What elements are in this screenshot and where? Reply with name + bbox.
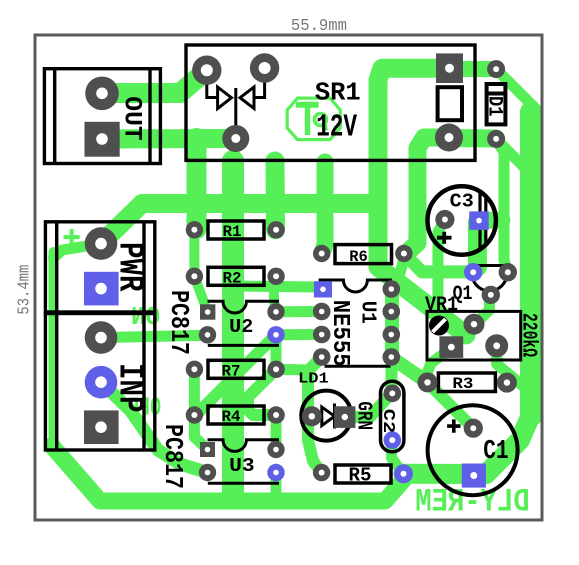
svg-text:U3: U3 — [229, 455, 255, 477]
wire Q1 emitter to VR1 top pad — [474, 295, 490, 326]
svg-text:PC817: PC817 — [164, 290, 194, 355]
svg-text:R7: R7 — [222, 363, 241, 381]
pad U2 pin4 — [267, 303, 284, 320]
pad U1 pin5 — [313, 348, 331, 366]
pad VR1 wiper square — [439, 336, 463, 358]
pad R7 left — [186, 361, 203, 378]
pad U1 pin3 — [383, 326, 401, 344]
svg-text:R1: R1 — [223, 223, 242, 241]
svg-text:U1: U1 — [356, 301, 379, 324]
wire D1 bottom down to Q1 collector — [496, 140, 508, 272]
svg-text:C1: C1 — [483, 437, 508, 467]
wire OUT round pad to relay pin A — [102, 70, 207, 93]
svg-text:C2: C2 — [378, 409, 397, 433]
wire U2 bottom right to U1 pin3 — [276, 329, 322, 340]
svg-text:VR1: VR1 — [425, 294, 458, 317]
resistor R6 body — [335, 245, 392, 264]
pad R3 left — [418, 372, 438, 392]
optocoupler U3 outline — [208, 440, 280, 484]
connector INP body — [45, 314, 154, 451]
pad Q1 emitter — [482, 286, 500, 304]
svg-text:INP: INP — [110, 363, 150, 413]
wire C3 minus down to Q1 base — [468, 222, 487, 267]
pad R1 left — [186, 221, 203, 238]
svg-text:PC817: PC817 — [158, 424, 188, 489]
svg-text:LD1: LD1 — [298, 370, 329, 387]
svg-text:SR1: SR1 — [315, 78, 361, 108]
LED LD1 outline circle — [301, 391, 351, 441]
pad VR1 top — [464, 314, 485, 335]
pad R3 right — [497, 373, 517, 393]
pad U3 pin3 blue — [267, 464, 284, 481]
transistor Q1 outline — [472, 266, 507, 291]
wire D1 top diagonal to right bus — [496, 69, 536, 109]
pad INP-1 round — [85, 321, 118, 354]
pad C1 minus blue square — [462, 464, 486, 488]
wire U2 pin3 to R4 left diagonal — [194, 335, 276, 417]
pad PWR-plus round — [85, 227, 118, 260]
wire R3 left to C1 plus — [427, 382, 473, 428]
svg-text:R5: R5 — [349, 465, 372, 487]
wire VR1 wiper to R3 left — [428, 350, 450, 382]
pad relay coil round — [435, 124, 463, 152]
pad C3 plus — [435, 210, 454, 229]
pad U1 pin2 — [383, 303, 401, 321]
pad C2 bottom blue — [384, 431, 402, 449]
wire branch to U2 top right pad — [274, 288, 276, 312]
pad U1 pin7 — [313, 303, 331, 321]
pad VR1 bottom right — [485, 334, 508, 357]
capacitor C2 outline — [381, 381, 404, 452]
wire fuse bottom to D1 bottom — [449, 129, 496, 148]
board outline frame — [35, 35, 542, 520]
fuse body — [438, 87, 462, 120]
wire INP blue pad diagonal to U3 bottom left — [101, 382, 208, 472]
pad INP-3 square — [84, 410, 119, 444]
wire R6 right to Q1 base pad — [404, 254, 472, 272]
LED LD1 triangle and bar — [322, 404, 335, 429]
pad relay common — [222, 125, 249, 152]
pad R7 right — [267, 361, 284, 378]
svg-text:U2: U2 — [229, 316, 253, 338]
wire U2 top right to U1 pin2 — [276, 306, 322, 317]
pad R1 right — [267, 221, 284, 238]
capacitor C1 plus sign — [447, 419, 460, 432]
wire U1 pin4 to LD1 anode to R5 left — [308, 357, 322, 473]
connector OUT body — [44, 69, 160, 164]
wire right vertical bus — [520, 112, 542, 416]
pad OUT-2 square — [85, 122, 120, 157]
wire C3 plus down to VR1 screw — [438, 220, 445, 324]
potentiometer VR1 screw — [429, 316, 449, 336]
wire D1 bottom diagonal to right bus — [496, 139, 523, 166]
pad R2 left — [186, 268, 203, 285]
svg-text:GRN: GRN — [352, 401, 375, 430]
pad Q1 collector — [499, 263, 517, 281]
wire long vertical bus behind R1 R2 U2 R7 R4 U3 — [222, 161, 244, 496]
timer U1 outline — [319, 280, 392, 366]
pad R5 left — [313, 464, 330, 481]
pad Q1 base blue — [464, 263, 482, 281]
pad R4 right — [267, 406, 284, 423]
wire VR1 lower right pad to bus — [497, 350, 523, 386]
pad relay coil square — [436, 53, 463, 83]
pad U1 pin1 — [383, 280, 401, 298]
wire relay square pad down to VR1 square pad — [378, 68, 466, 335]
resistor R3 body — [438, 373, 495, 392]
wire R7 left to R4 left to U3 pin1 — [194, 369, 207, 449]
pad C2 top — [384, 385, 402, 403]
logo octagon badge — [287, 98, 340, 140]
svg-text:R6: R6 — [349, 248, 368, 266]
svg-text:R2: R2 — [223, 270, 242, 288]
wire PWR pad to left vertical — [54, 244, 100, 258]
svg-text:220kΩ: 220kΩ — [517, 313, 540, 357]
relay diac symbol — [207, 82, 265, 127]
resistor R5 body — [335, 465, 391, 483]
wire left edge vertical — [49, 252, 59, 449]
resistor R2 body — [208, 267, 264, 285]
wire R7 right junction — [276, 364, 308, 376]
svg-text:OUT: OUT — [117, 96, 146, 140]
pad U1 pin6 — [313, 326, 331, 344]
wire C2 bottom to R5 right — [392, 440, 404, 474]
pad R6 right — [395, 245, 412, 262]
wire U1 pin4r to C2 top — [386, 357, 398, 393]
wire relay square pad to D1 top — [460, 61, 492, 77]
wire bus to U1 pin8 square — [233, 286, 318, 287]
wire R7 right to R4 right via jog — [248, 369, 276, 415]
pad R2 right — [267, 268, 284, 285]
svg-text:R3: R3 — [452, 375, 473, 393]
pad U2 pin1 square — [200, 304, 215, 319]
pad R4 left — [186, 406, 203, 423]
diode D1 body — [487, 84, 506, 124]
pad relay pin A — [192, 55, 221, 84]
pad U2 pin3 blue — [267, 326, 284, 343]
resistor R1 body — [208, 221, 264, 239]
LD1 cathode square pad over bar — [334, 406, 355, 428]
resistor R4 body — [208, 406, 264, 424]
pad R6 left — [313, 245, 330, 262]
wire U2 bottom right to R7 right — [271, 335, 282, 370]
relay SR1 body — [186, 45, 475, 160]
wire U3 bottom right to bottom band — [271, 473, 282, 495]
wire C3 minus to vertical — [477, 212, 502, 229]
PWR plus sign green — [64, 229, 80, 245]
pad R5 right blue — [394, 464, 413, 483]
svg-text:NE555: NE555 — [326, 300, 353, 367]
connector PWR body — [45, 222, 154, 312]
pad U1 pin8 blue square — [314, 281, 332, 297]
wire U1 pin5 to R6 right — [391, 262, 403, 289]
svg-text:55.9mm: 55.9mm — [291, 17, 347, 36]
potentiometer VR1 body — [427, 311, 521, 360]
svg-text:12V: 12V — [316, 111, 357, 146]
wire vertical to R6 left — [322, 162, 325, 254]
pad U3 pin4 — [267, 441, 284, 458]
pad D1 anode — [487, 130, 505, 148]
pad relay pin B — [250, 53, 279, 82]
wire fuse bottom pad down to R6 right — [406, 138, 449, 254]
wire LD1 cathode to C2 top — [345, 393, 392, 417]
svg-text:PWR: PWR — [110, 242, 150, 292]
pad U3 pin1 square — [200, 442, 215, 457]
pad INP-2 blue round — [85, 366, 118, 399]
wire U1 right pads vertical to R3 left — [392, 284, 427, 382]
capacitor C1 outline — [428, 405, 518, 495]
wire highway PWR to center — [101, 204, 378, 244]
wire R4 right to U3 top right — [271, 415, 282, 450]
svg-text:53.4mm: 53.4mm — [16, 265, 35, 315]
pad U2 pin2 — [199, 326, 216, 343]
wire INP pad to U2 bottom left — [101, 335, 208, 337]
pad C1 plus — [464, 419, 483, 438]
wire OUT square pad to relay common pin — [102, 129, 236, 149]
svg-text:C3: C3 — [450, 191, 474, 213]
svg-text:R4: R4 — [222, 408, 241, 426]
resistor R7 body — [208, 360, 264, 378]
pad PWR-minus blue square — [84, 272, 119, 306]
pad U1 pin4 — [383, 348, 401, 366]
pad LD1 anode — [302, 406, 322, 426]
wire R3 right to bus — [508, 377, 531, 388]
capacitor C3 outline — [428, 186, 496, 254]
wire relay common to R1 right — [266, 161, 286, 230]
wire bottom left corner and bottom band — [52, 446, 404, 501]
wire relay pool to R1 left / R2 left / U2 pin1 — [187, 138, 207, 229]
svg-text:D1: D1 — [482, 96, 505, 117]
pad D1 cathode — [487, 60, 505, 78]
wire bottom right band R5 right through C1 plus to bus — [404, 416, 531, 474]
capacitor C3 plus sign — [437, 232, 452, 244]
pad U3 pin2 — [199, 464, 216, 481]
svg-text:DLY-REM: DLY-REM — [415, 484, 530, 521]
pad C3 minus blue square over bars — [469, 211, 489, 230]
optocoupler U2 outline — [208, 301, 280, 345]
pad OUT-1 round — [85, 77, 119, 111]
